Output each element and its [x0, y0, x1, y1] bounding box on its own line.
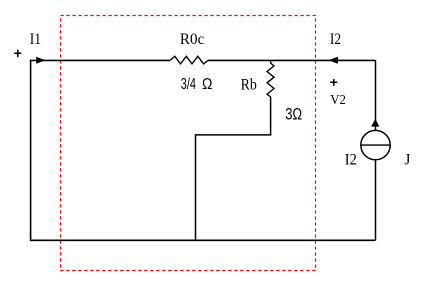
- arrow for current I1: [36, 57, 45, 64]
- wire: right branch upper: [375, 60, 377, 130]
- current source J diameter bar: [361, 144, 391, 146]
- wire: Rb bottom jog to bottom rail: [196, 100, 271, 240]
- dashed boundary box: [61, 16, 316, 271]
- svg-text:3Ω: 3Ω: [285, 106, 302, 124]
- arrow for current I2: [328, 57, 338, 64]
- resistor R0c: [170, 56, 208, 64]
- svg-text:J: J: [404, 151, 410, 168]
- svg-text:I2: I2: [330, 31, 341, 48]
- wire: top rail right segment: [208, 59, 376, 61]
- svg-text:3/4: 3/4: [181, 76, 196, 93]
- svg-text:I1: I1: [30, 31, 41, 48]
- resistor Rb: [267, 60, 274, 100]
- svg-text:R0c: R0c: [180, 31, 204, 48]
- plus sign (for V2): [330, 79, 337, 86]
- svg-text:V2: V2: [330, 93, 346, 108]
- wire: top rail left segment: [30, 59, 170, 61]
- wire: right branch lower: [375, 160, 377, 241]
- wire: left branch: [30, 60, 32, 240]
- arrow of current source: [371, 119, 379, 127]
- svg-text:I2: I2: [345, 152, 357, 169]
- wire: bottom rail: [30, 239, 376, 241]
- current source J circle: [361, 130, 390, 159]
- svg-text:Rb: Rb: [241, 76, 257, 93]
- plus sign (left, for I1): [14, 50, 21, 58]
- svg-text:Ω: Ω: [202, 76, 212, 93]
